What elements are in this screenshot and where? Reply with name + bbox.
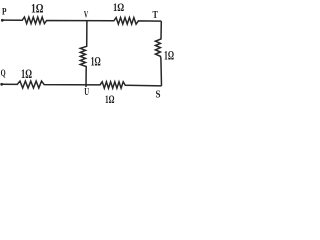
svg-text:T: T (153, 10, 159, 21)
svg-text:1Ω: 1Ω (31, 1, 44, 15)
svg-text:Q: Q (1, 68, 6, 78)
svg-text:V: V (84, 10, 89, 20)
svg-text:1Ω: 1Ω (113, 0, 124, 14)
svg-text:1Ω: 1Ω (164, 48, 174, 62)
svg-text:1Ω: 1Ω (91, 54, 101, 68)
svg-text:S: S (156, 90, 161, 101)
svg-text:1Ω: 1Ω (21, 67, 32, 81)
svg-text:P: P (2, 7, 7, 17)
svg-text:U: U (84, 87, 89, 98)
svg-text:1Ω: 1Ω (105, 92, 115, 106)
